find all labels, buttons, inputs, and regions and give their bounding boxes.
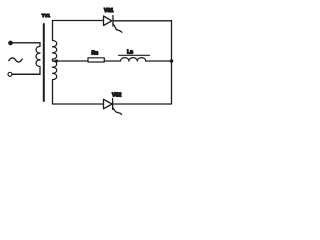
- svg-text:VS1: VS1: [104, 8, 114, 14]
- transformer TV1 primary winding: [12, 43, 40, 75]
- svg-text:TV1: TV1: [42, 13, 51, 18]
- transformer TV1 secondary winding: [53, 21, 57, 105]
- wire resistor to inductor: [104, 60, 120, 62]
- junction dot on tap: [55, 59, 58, 62]
- inductor Ln: [119, 55, 150, 61]
- svg-text:Ln: Ln: [127, 50, 133, 56]
- input terminal bottom: [8, 72, 12, 76]
- center tap wire: [53, 60, 89, 62]
- resistor Rn: [88, 58, 104, 62]
- bottom rail wire left: [53, 103, 104, 105]
- input terminal top: [9, 41, 13, 45]
- thyristor VS2: [104, 99, 122, 115]
- wire inductor to junction: [146, 60, 172, 62]
- wire bottom stub: [12, 73, 40, 75]
- wire from VS1 to right rail: [113, 20, 172, 22]
- junction dot right: [170, 59, 174, 63]
- AC source symbol: [9, 58, 22, 62]
- top rail wire: [53, 20, 104, 22]
- svg-text:Rn: Rn: [92, 51, 99, 57]
- bottom rail wire right: [113, 103, 172, 105]
- right vertical wire: [171, 21, 173, 105]
- thyristor VS1: [104, 16, 122, 33]
- transformer core: [43, 24, 45, 101]
- svg-text:VS2: VS2: [112, 92, 122, 98]
- wire top stub: [12, 42, 40, 44]
